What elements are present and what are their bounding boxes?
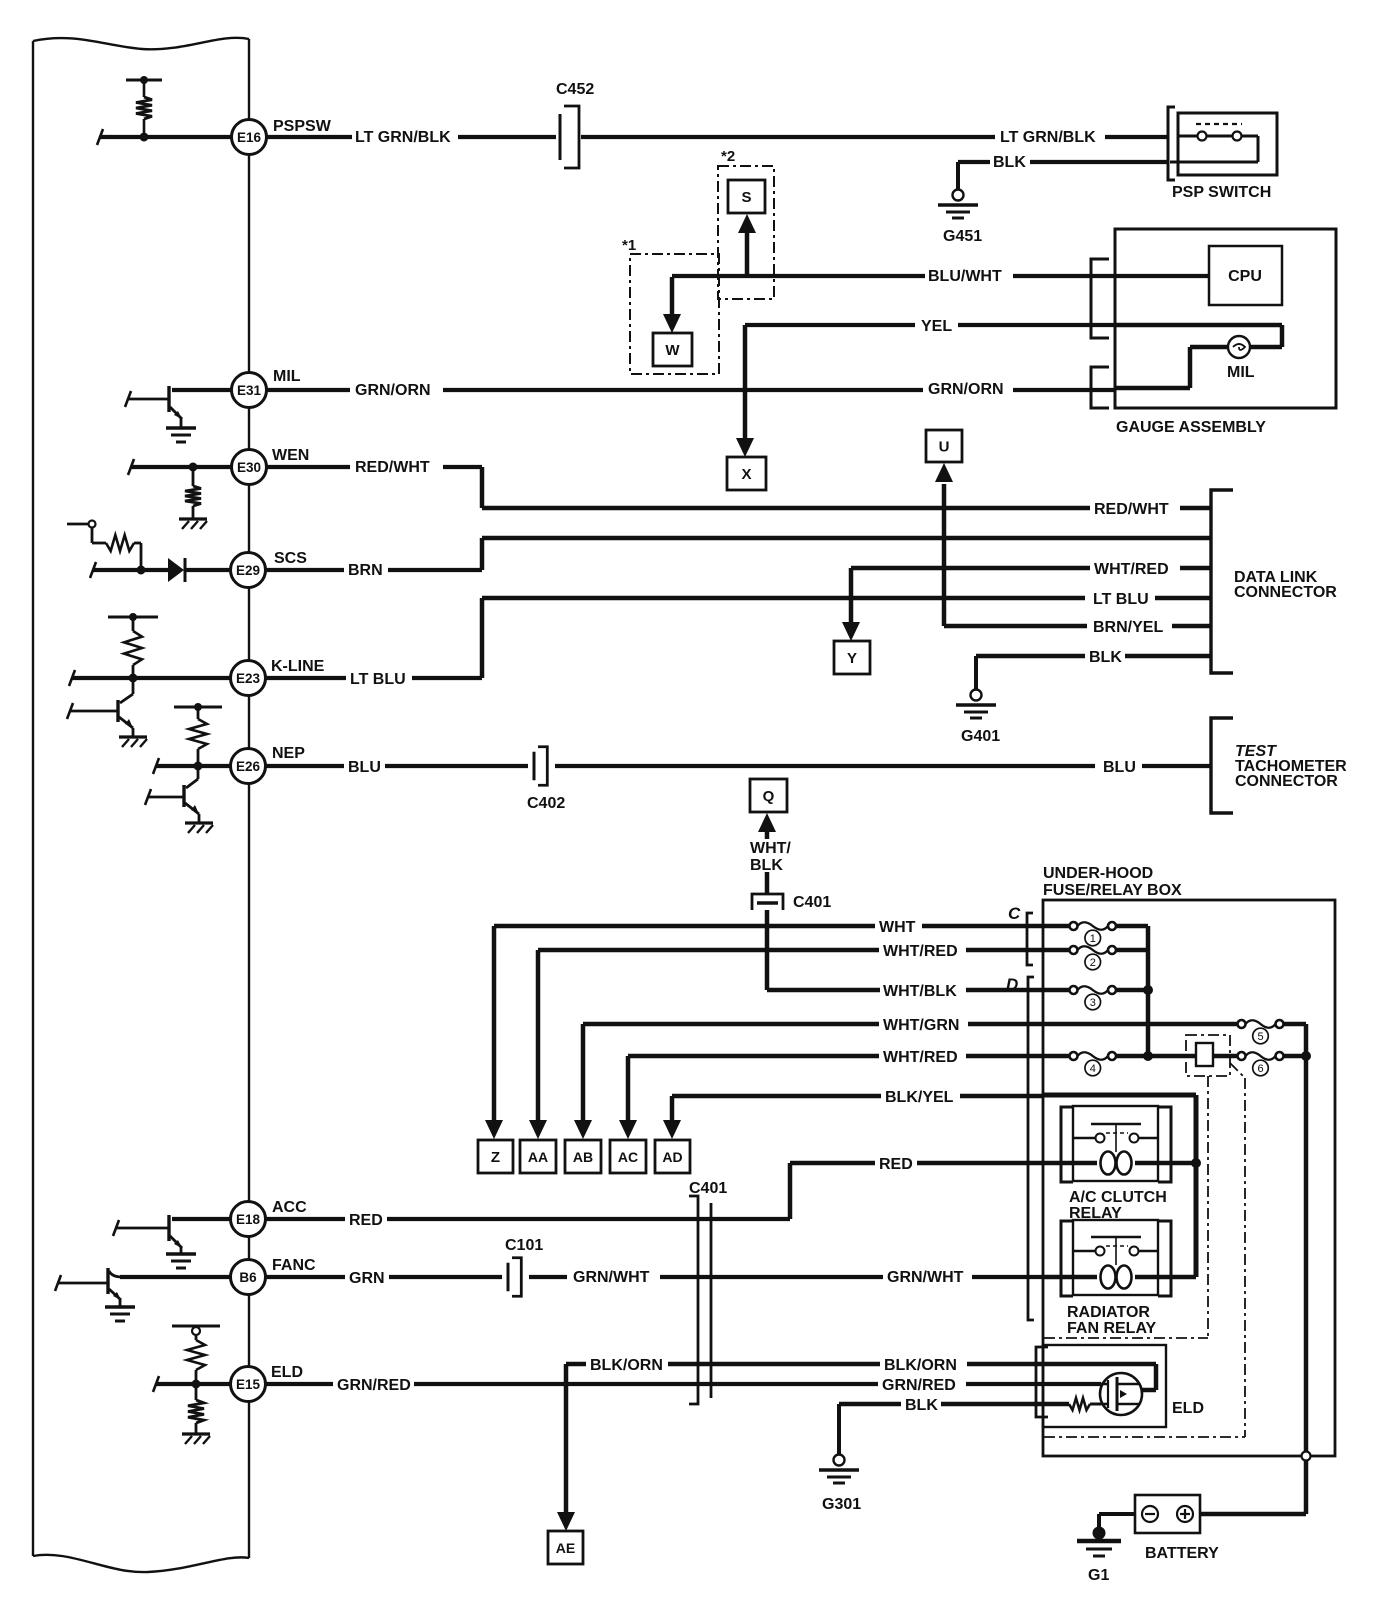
svg-text:CONNECTOR: CONNECTOR [1234, 584, 1337, 601]
radiator fan relay contact [1073, 1237, 1158, 1265]
svg-text:E15: E15 [236, 1377, 261, 1392]
node AC [610, 1140, 646, 1173]
ground G1 [1077, 1527, 1121, 1584]
wire NEP BLU from E26 to C402 [266, 759, 528, 776]
internal pull-up resistor for E26 [174, 704, 222, 771]
under-hood fuse/relay box outline [1043, 865, 1335, 1456]
svg-text:ACC: ACC [272, 1199, 307, 1216]
connector C402 [527, 747, 565, 812]
svg-text:BLU/WHT: BLU/WHT [928, 268, 1002, 285]
svg-text:WHT/RED: WHT/RED [1094, 561, 1169, 578]
svg-text:G301: G301 [822, 1496, 861, 1513]
wire ECM internal to pin E16 [97, 129, 231, 145]
svg-text:K-LINE: K-LINE [271, 658, 325, 675]
ELD sensor transistor (hall element) [1100, 1373, 1142, 1415]
wire ECM internal to pin E30 [128, 459, 231, 475]
data link connector bracket [1211, 490, 1337, 673]
svg-text:GRN/WHT: GRN/WHT [573, 1269, 650, 1286]
svg-text:RED/WHT: RED/WHT [355, 459, 430, 476]
wire FANC GRN from B6 to C101 [266, 1270, 502, 1287]
svg-text:Q: Q [763, 788, 775, 805]
svg-text:BRN: BRN [348, 562, 383, 579]
svg-text:E23: E23 [236, 671, 261, 686]
PSP SWITCH [1168, 107, 1277, 201]
ELD internal wiring BLK/ORN branch [1043, 1364, 1156, 1390]
svg-text:NEP: NEP [272, 745, 305, 762]
svg-text:Z: Z [491, 1149, 500, 1166]
node S [728, 180, 765, 213]
ELD internal wiring BLK branch [1090, 1403, 1101, 1406]
svg-text:LT BLU: LT BLU [1093, 591, 1149, 608]
node AD [655, 1140, 690, 1173]
A/C clutch relay coil on RED wire [1073, 1152, 1201, 1175]
svg-text:C101: C101 [505, 1237, 543, 1254]
svg-text:S: S [741, 189, 751, 206]
wire ECM internal to pin B6 [120, 1275, 231, 1279]
wire LT GRN/BLK from C452 to PSP switch [581, 129, 1168, 146]
svg-text:GRN/ORN: GRN/ORN [928, 381, 1004, 398]
connector D bracket [1006, 975, 1034, 1320]
svg-text:BLK: BLK [993, 154, 1026, 171]
ECM/PCM main unit box (torn-edge outline) [33, 38, 249, 1572]
dash-dot option box *1 [622, 237, 719, 374]
node AA [520, 1140, 556, 1173]
connector C401 (Q branch) [752, 894, 831, 911]
svg-text:GRN/RED: GRN/RED [337, 1377, 411, 1394]
svg-text:C402: C402 [527, 795, 565, 812]
wire BLU/WHT from gauge assembly to nodes S and W [672, 268, 1209, 285]
svg-text:BLK/YEL: BLK/YEL [885, 1089, 954, 1106]
pin E25 (SCS) [231, 550, 308, 588]
svg-text:E18: E18 [236, 1212, 261, 1227]
arrow to node Q with WHT/BLK riser [750, 813, 791, 894]
wire BLK/ORN from ELD unit to node AE [557, 1357, 1043, 1531]
dash-dot option box *2 [718, 148, 774, 299]
svg-text:Y: Y [847, 650, 857, 667]
node AB [565, 1140, 601, 1173]
ground G301 [819, 1455, 861, 1514]
wire MIL GRN/ORN from E31 to gauge assembly [267, 381, 1115, 399]
svg-text:GRN: GRN [349, 1270, 385, 1287]
node AE [548, 1531, 583, 1564]
test tachometer connector bracket [1211, 718, 1347, 813]
svg-text:FAN RELAY: FAN RELAY [1067, 1320, 1157, 1337]
svg-text:5: 5 [1257, 1031, 1263, 1043]
svg-text:G451: G451 [943, 228, 982, 245]
svg-text:B6: B6 [239, 1270, 257, 1285]
wire ACC RED from E18 to A/C clutch relay [266, 1156, 1073, 1229]
svg-text:RED: RED [349, 1212, 383, 1229]
arrow to node X [736, 325, 754, 457]
svg-text:MIL: MIL [273, 368, 301, 385]
svg-text:C: C [1008, 904, 1021, 923]
svg-text:BATTERY: BATTERY [1145, 1545, 1219, 1562]
connector C bracket [1008, 904, 1033, 965]
svg-text:3: 3 [1090, 997, 1096, 1009]
wire ECM internal to pin E26 [153, 758, 230, 774]
internal transistor for E23 [67, 678, 147, 747]
svg-text:ELD: ELD [271, 1364, 303, 1381]
svg-text:AA: AA [528, 1149, 548, 1165]
svg-text:E26: E26 [236, 759, 261, 774]
fuse 3 [1070, 986, 1149, 1010]
fuse 2 [1070, 946, 1149, 970]
svg-text:C452: C452 [556, 81, 594, 98]
svg-text:X: X [741, 466, 751, 483]
pin E15 (ELD) [231, 1364, 304, 1402]
node Y [834, 641, 870, 674]
internal pull-down resistor for E30 [179, 463, 207, 529]
node Q [750, 779, 787, 812]
svg-text:PSP SWITCH: PSP SWITCH [1172, 184, 1271, 201]
internal pull-up resistor for E23 [108, 614, 158, 683]
svg-text:U: U [939, 439, 950, 456]
svg-text:MIL: MIL [1227, 364, 1255, 381]
wire ELD GRN/RED from E15 to ELD unit [266, 1377, 1101, 1394]
svg-text:W: W [665, 342, 680, 359]
wire BLU from C402 to test tachometer connector [555, 759, 1211, 776]
pin E23 (K-LINE) [231, 658, 325, 696]
fuse 4 [1070, 1052, 1149, 1076]
internal wiring YEL to MIL bulb [1115, 325, 1282, 347]
node U [926, 430, 962, 462]
svg-text:WHT/: WHT/ [750, 840, 791, 857]
svg-text:WHT/BLK: WHT/BLK [883, 983, 957, 1000]
wire BLK/YEL from relay box to node AD [663, 1089, 1043, 1139]
bus joining fuses 1-4 [1144, 926, 1153, 1061]
svg-text:ELD: ELD [1172, 1400, 1204, 1417]
gauge assembly connector bracket lower [1091, 367, 1109, 408]
svg-text:*1: *1 [622, 237, 636, 254]
svg-text:RADIATOR: RADIATOR [1067, 1304, 1150, 1321]
fuse 6 [1148, 1052, 1306, 1076]
connector C101 [505, 1237, 543, 1296]
wire BLK from PSP switch to ground G451 [958, 154, 1168, 190]
pin E16 (PSPSW) [232, 118, 332, 155]
svg-text:LT GRN/BLK: LT GRN/BLK [1000, 129, 1096, 146]
svg-text:AD: AD [662, 1149, 682, 1165]
svg-text:AE: AE [556, 1540, 575, 1556]
wire YEL from gauge assembly to node X riser [745, 318, 1115, 335]
internal resistor network for E25 [67, 521, 145, 575]
svg-text:RED: RED [879, 1156, 913, 1173]
internal diode for E25 [90, 558, 231, 582]
svg-text:GAUGE ASSEMBLY: GAUGE ASSEMBLY [1116, 419, 1266, 436]
ELD unit box [1043, 1345, 1204, 1427]
internal driver transistor for B6 [55, 1268, 135, 1321]
arrow to node S [738, 214, 756, 277]
gauge assembly box [1115, 229, 1336, 436]
ground G401 [956, 690, 1000, 746]
internal driver transistor for E31 [125, 386, 196, 442]
wire ECM internal to pin E15 [153, 1376, 230, 1392]
pin E31 (MIL) [232, 368, 301, 408]
svg-text:*2: *2 [721, 148, 735, 165]
wire battery negative to ground G1 [1099, 1514, 1135, 1527]
relay contact box on WHT/RED feed [1186, 1035, 1230, 1076]
svg-text:BLK: BLK [905, 1397, 938, 1414]
wire SCS BRN from E25 to data link connector [266, 538, 1211, 579]
ground G451 [938, 190, 982, 246]
dash-dot relay linkage lines [1044, 1063, 1245, 1437]
right bus from fuse 5/6 to battery [1200, 1024, 1311, 1514]
battery [1135, 1495, 1219, 1562]
wire PSPSW LT GRN/BLK from E16 to C452 [267, 129, 556, 146]
wire WHT/GRN from fuse 5 to node AB [574, 1017, 1237, 1139]
svg-text:LT BLU: LT BLU [350, 671, 406, 688]
wire ECM internal to pin E31 [172, 388, 231, 392]
node X [727, 457, 766, 490]
svg-text:LT GRN/BLK: LT GRN/BLK [355, 129, 451, 146]
wire WHT/RED from data link connector to node Y [842, 561, 1211, 641]
svg-text:GRN/WHT: GRN/WHT [887, 1269, 964, 1286]
svg-text:AB: AB [573, 1149, 593, 1165]
svg-text:GRN/ORN: GRN/ORN [355, 382, 431, 399]
wire WHT/RED from fuse 2 to node AA [529, 943, 1069, 1139]
svg-text:CPU: CPU [1228, 268, 1262, 285]
svg-text:E30: E30 [237, 460, 261, 475]
svg-text:E29: E29 [236, 563, 260, 578]
internal resistor network for E15 [172, 1326, 220, 1444]
ELD unit connector bracket [1036, 1347, 1048, 1417]
svg-text:BLK: BLK [1089, 649, 1122, 666]
connector C452 [556, 81, 594, 168]
svg-text:1: 1 [1090, 933, 1096, 945]
CPU box inside gauge assembly [1209, 246, 1282, 305]
svg-text:FANC: FANC [272, 1257, 316, 1274]
wire WHT/BLK from C401 to fuse 3 [767, 910, 1069, 1000]
svg-text:WEN: WEN [272, 447, 309, 464]
node Z [478, 1140, 513, 1173]
internal driver transistor for E18 [113, 1215, 196, 1268]
pin E26 (NEP) [231, 745, 306, 784]
internal pull-up resistor for E16 [126, 77, 162, 142]
svg-text:2: 2 [1090, 957, 1096, 969]
svg-text:6: 6 [1257, 1063, 1263, 1075]
svg-text:BLU: BLU [348, 759, 381, 776]
wire WHT from fuse 1 to node Z [485, 919, 1069, 1139]
svg-text:G1: G1 [1088, 1567, 1109, 1584]
internal transistor for E26 [145, 766, 213, 833]
svg-text:FUSE/RELAY BOX: FUSE/RELAY BOX [1043, 882, 1182, 899]
svg-text:AC: AC [618, 1149, 638, 1165]
node W [653, 333, 692, 366]
wire GRN/WHT from C101 to radiator fan relay [529, 1269, 1043, 1286]
BLK/YEL relay supply frame (thick) [1043, 1095, 1196, 1277]
svg-text:WHT: WHT [879, 919, 916, 936]
svg-text:C401: C401 [793, 894, 831, 911]
svg-text:4: 4 [1090, 1063, 1096, 1075]
svg-text:PSPSW: PSPSW [273, 118, 332, 135]
svg-text:G401: G401 [961, 728, 1000, 745]
svg-text:WHT/GRN: WHT/GRN [883, 1017, 959, 1034]
svg-text:BLK: BLK [750, 857, 783, 874]
fuse 5 [1238, 1020, 1307, 1044]
svg-text:UNDER-HOOD: UNDER-HOOD [1043, 865, 1153, 882]
fuse 1 [1070, 922, 1149, 946]
svg-text:D: D [1006, 975, 1018, 994]
wire BLK from ELD unit to ground G301 [839, 1397, 1069, 1455]
svg-text:GRN/RED: GRN/RED [882, 1377, 956, 1394]
svg-text:C401: C401 [689, 1180, 727, 1197]
svg-text:SCS: SCS [274, 550, 307, 567]
pin E30 (WEN) [232, 447, 310, 485]
wire K-LINE LT BLU from E23 to data link connector [266, 591, 1211, 688]
svg-text:WHT/RED: WHT/RED [883, 943, 958, 960]
connector C401 (bulkhead, tall) [689, 1180, 727, 1404]
svg-text:BLU: BLU [1103, 759, 1136, 776]
svg-text:BLK/ORN: BLK/ORN [884, 1357, 957, 1374]
wire WEN RED/WHT from E30 to data link connector [267, 459, 1211, 518]
svg-text:BLK/ORN: BLK/ORN [590, 1357, 663, 1374]
pin B6 (FANC) [231, 1257, 317, 1295]
internal wiring MIL bulb to GRN/ORN pin [1115, 347, 1228, 388]
gauge assembly connector bracket upper [1091, 259, 1109, 338]
svg-text:BRN/YEL: BRN/YEL [1093, 619, 1163, 636]
arrow to node W [663, 277, 681, 333]
svg-text:E16: E16 [237, 130, 262, 145]
svg-text:E31: E31 [237, 383, 262, 398]
radiator fan relay brackets and box [1061, 1220, 1171, 1337]
A/C clutch relay brackets and box [1061, 1106, 1171, 1222]
svg-text:CONNECTOR: CONNECTOR [1235, 773, 1338, 790]
MIL indicator bulb [1227, 336, 1255, 381]
radiator fan relay coil on GRN/WHT wire [1043, 1266, 1196, 1289]
pin E18 (ACC) [231, 1199, 308, 1237]
wire ECM internal to pin E18 [172, 1217, 231, 1221]
ELD internal sense resistor [1069, 1398, 1090, 1410]
svg-text:A/C CLUTCH: A/C CLUTCH [1069, 1189, 1167, 1206]
wire ECM internal to pin E23 [69, 670, 230, 686]
wire BLK from data link connector to ground G401 [976, 649, 1211, 690]
svg-text:WHT/RED: WHT/RED [883, 1049, 958, 1066]
A/C clutch relay contact [1073, 1124, 1158, 1152]
svg-text:RED/WHT: RED/WHT [1094, 501, 1169, 518]
svg-text:YEL: YEL [921, 318, 952, 335]
wire WHT/RED from fuse 4 to node AC [619, 1049, 1069, 1139]
wire BRN/YEL from data link connector to node U [935, 463, 1211, 636]
